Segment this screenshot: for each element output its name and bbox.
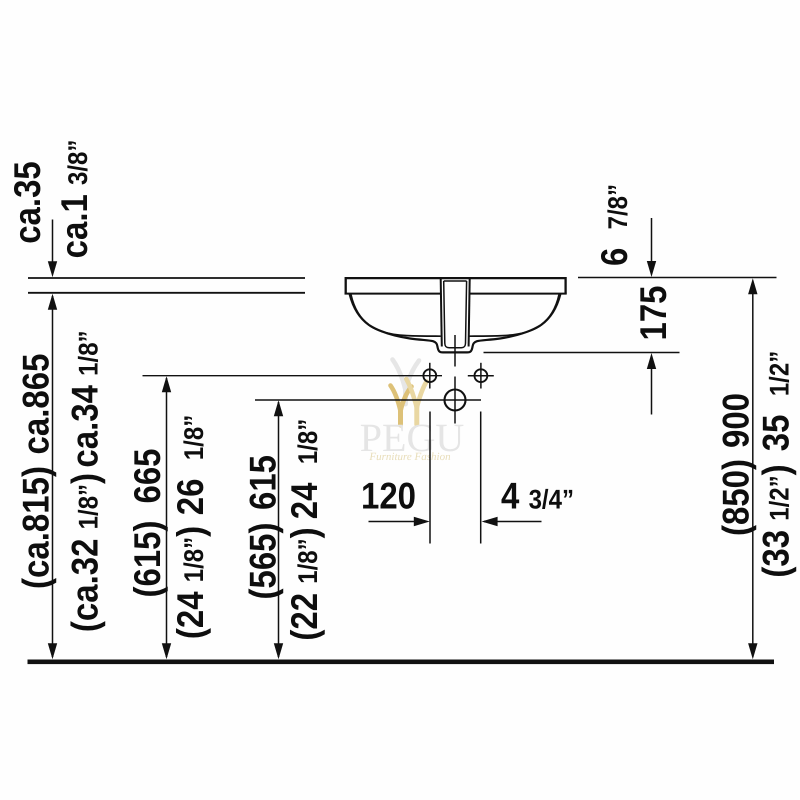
watermark gray Y tree [393,360,420,405]
svg-text:Furniture Fashion: Furniture Fashion [368,451,451,463]
dimension ca.865 line floor to counter with arrows [52,296,54,657]
drain channel inner top edge [444,280,467,282]
dimension 120 left leader with right arrow [369,521,427,523]
sink rim outline [346,278,566,294]
watermark gold Y tree 1 [391,386,412,426]
right small hole crosshair horizontal [468,375,494,377]
svg-text:120: 120 [361,475,416,517]
extension line at sink bottom (y 352.5) [484,352,680,354]
dimension 615 line with arrows [278,402,280,657]
dimension 665 line with arrows [166,378,168,657]
floor line [28,660,775,665]
sink bowl interior curve left [351,294,441,336]
center axis line lower [454,377,456,424]
left small hole vertical crosshair [429,363,431,389]
drain channel outer right wall [469,279,470,347]
svg-text:900: 900 [715,393,757,448]
svg-text:(565): (565) [242,522,284,599]
svg-text:665: 665 [126,448,168,503]
right small mounting hole [475,369,488,382]
dimension 900 line right with arrows [752,281,754,658]
svg-text:615: 615 [242,455,284,510]
center axis line upper [454,335,456,367]
watermark gold Y tree 2 [406,379,426,425]
dimension 175 lower arrow [651,357,653,415]
left small mounting hole [423,369,436,382]
extension line right of counter (y 277.5) [578,277,777,279]
right small hole crosshair vertical [480,363,482,389]
big faucet hole [445,390,466,411]
dimension 4 3/4 right leader with left arrow [484,521,542,523]
dimension ca.35 upper line with down arrow [52,220,54,274]
svg-text:(850): (850) [715,459,757,536]
hole extension line right (x 480.7) [480,412,482,544]
svg-text:(615): (615) [126,520,168,597]
sink bowl exterior underside [350,294,561,352]
svg-text:(ca.815): (ca.815) [15,466,57,589]
drain channel outer left wall [441,279,442,347]
svg-text:175: 175 [632,285,674,340]
countertop bottom line [28,292,305,294]
dimension 175 upper arrow [651,218,653,273]
countertop top line [28,277,305,279]
hole extension line left (x 430.7) [429,412,431,544]
extension line to small holes (y 375.7) [143,375,443,377]
drain channel inner walls and bottom [444,281,467,348]
sink bowl interior curve right [469,294,559,336]
svg-text:ca.865: ca.865 [15,354,57,455]
svg-text:ca.35: ca.35 [6,161,48,244]
extension line to big hole (y 400) [255,399,481,401]
